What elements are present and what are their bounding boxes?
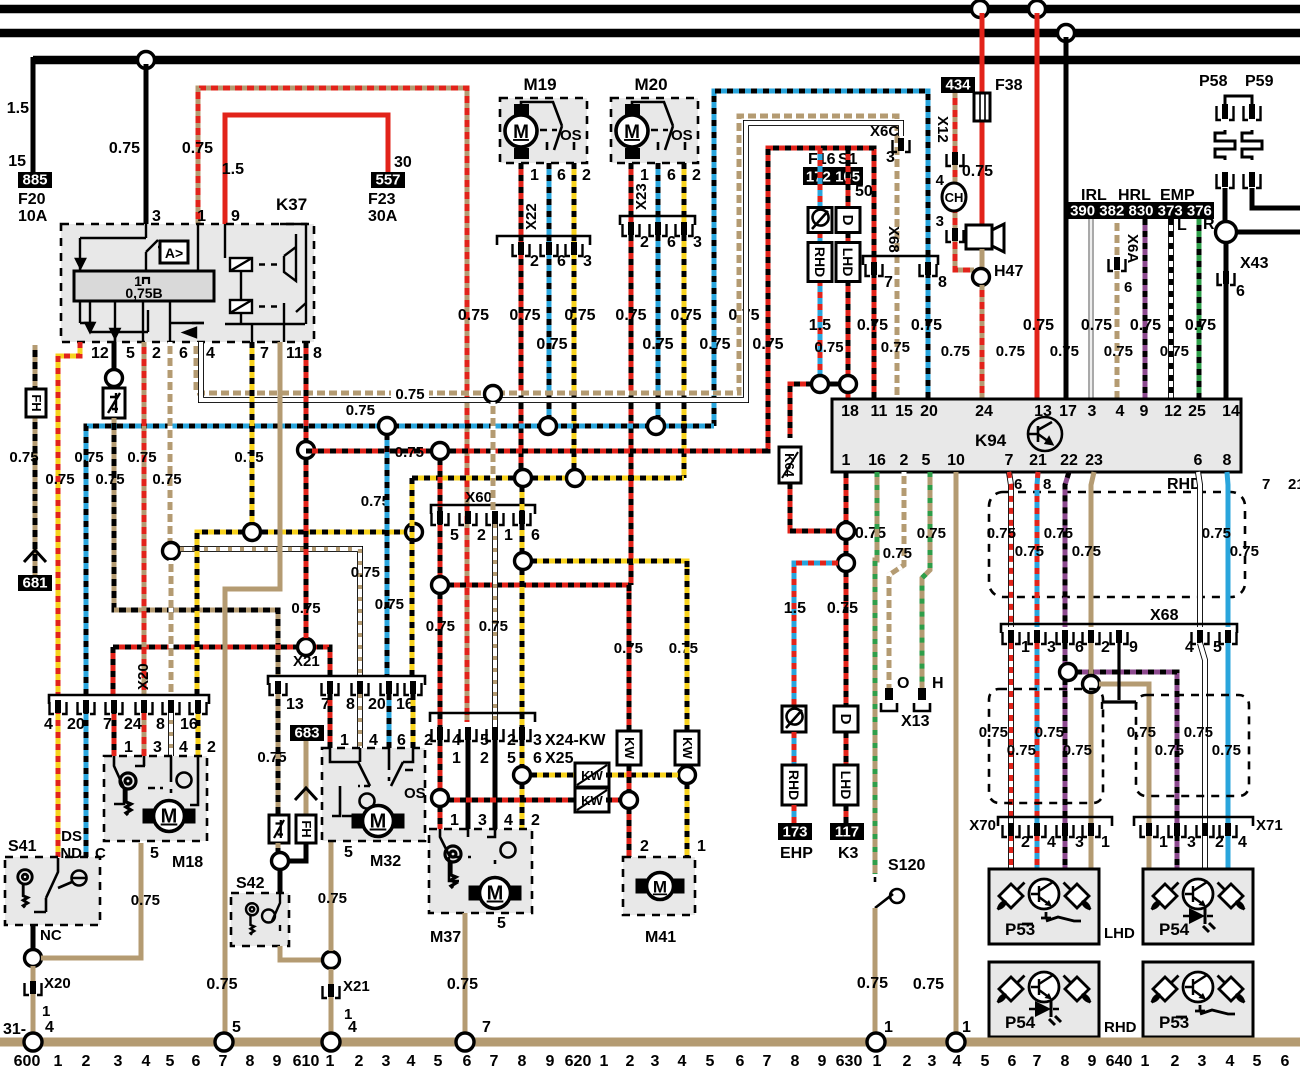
svg-text:H: H — [932, 675, 944, 692]
wire X21low to bus — [329, 969, 334, 1038]
pin X71 x1177 — [1169, 823, 1186, 837]
lamp check CH — [942, 183, 966, 211]
pin X68 long x1037 — [1029, 630, 1046, 644]
svg-text:K37: K37 — [276, 195, 307, 214]
svg-text:0.75: 0.75 — [564, 307, 595, 324]
wire horn to H47 — [980, 249, 985, 268]
svg-text:X60: X60 — [465, 489, 492, 506]
wire X20 pin4 to S41 — [56, 708, 61, 858]
svg-text:1.5: 1.5 — [784, 600, 806, 617]
wire M20 red corner down — [627, 585, 632, 798]
wire NC junction down — [31, 966, 36, 1038]
svg-text:1: 1 — [530, 167, 539, 184]
wire M32 pin5 tan — [329, 841, 334, 951]
svg-text:5: 5 — [706, 1053, 715, 1069]
pin X24 x468 — [460, 727, 477, 741]
svg-text:1: 1 — [1101, 834, 1110, 851]
wire purple/black to X70 pin3 — [1063, 643, 1068, 869]
svg-text:1: 1 — [1021, 639, 1030, 656]
junction yel 561 — [515, 553, 532, 570]
S41 internal switch — [34, 858, 87, 912]
svg-text:640: 640 — [1106, 1053, 1133, 1069]
svg-text:F38: F38 — [995, 77, 1023, 94]
svg-text:4: 4 — [936, 172, 945, 189]
motor unit M37 box — [429, 829, 532, 913]
svg-text:0.75: 0.75 — [95, 471, 124, 488]
pin X22-3 — [566, 242, 583, 256]
pin X68 long x1065 — [1057, 630, 1074, 644]
svg-text:8: 8 — [1061, 1053, 1070, 1069]
net label 557 — [371, 172, 405, 189]
svg-text:M41: M41 — [645, 929, 676, 946]
svg-text:12: 12 — [91, 345, 109, 362]
net label 173 — [778, 823, 812, 841]
svg-text:D: D — [837, 714, 854, 725]
wire X20 pin24 to M18 pin3 — [142, 708, 147, 756]
svg-text:20: 20 — [368, 696, 386, 713]
junction blue M19 — [540, 418, 557, 435]
pin X6A — [1109, 257, 1126, 271]
svg-text:0.75: 0.75 — [127, 449, 156, 466]
wire link junctions — [828, 382, 840, 387]
wire K94 pin6 white — [1198, 472, 1200, 627]
junction redblk 450 — [298, 442, 315, 459]
svg-text:0.75: 0.75 — [962, 163, 993, 180]
svg-text:0.75: 0.75 — [1063, 742, 1092, 759]
svg-text:0.75: 0.75 — [395, 444, 424, 461]
svg-text:3: 3 — [153, 739, 162, 756]
svg-text:LHD: LHD — [840, 248, 856, 277]
svg-text:0.75: 0.75 — [458, 307, 489, 324]
key symbol S41 — [18, 870, 32, 908]
svg-text:0.75: 0.75 — [987, 525, 1016, 542]
wire X24 to M37 pin2 — [520, 740, 525, 775]
svg-text:2: 2 — [152, 345, 161, 362]
svg-text:S120: S120 — [888, 857, 925, 874]
wire blue/black X68u pin8 to K94 pin20 — [926, 272, 931, 399]
junction P58/X43 — [1216, 222, 1237, 243]
svg-text:M: M — [653, 878, 667, 897]
junction bus1 F38 — [972, 1, 989, 18]
svg-text:9: 9 — [231, 208, 240, 225]
wire tan branch to X71 pin1 — [1099, 684, 1149, 869]
svg-text:30: 30 — [394, 154, 412, 171]
wire M37 pin5 tan — [463, 913, 468, 1038]
wire red/black KW row b — [606, 798, 621, 803]
wire red/black horizontal y451 — [306, 449, 768, 454]
svg-text:0.75: 0.75 — [670, 307, 701, 324]
svg-text:0.75: 0.75 — [857, 975, 888, 992]
wire red/black 629 to M41 — [627, 808, 632, 857]
pin X21 x389 — [381, 681, 398, 695]
bus bar top rail 3 — [33, 56, 1300, 65]
svg-text:14: 14 — [1222, 403, 1240, 420]
wire X20 pin8 to M18 pin4 — [168, 708, 174, 756]
svg-text:1: 1 — [842, 452, 851, 469]
D box K3 — [834, 706, 858, 732]
svg-text:1: 1 — [42, 1003, 50, 1020]
svg-text:0.75: 0.75 — [1185, 317, 1216, 334]
wire tan to X70 pin1 — [1089, 643, 1094, 869]
wire 390 gray — [1088, 219, 1094, 399]
wire blue/red EHP b — [792, 732, 797, 765]
svg-text:KW: KW — [680, 737, 695, 759]
svg-text:7: 7 — [1033, 1053, 1042, 1069]
net label 117 — [830, 823, 864, 841]
M37 internal switch — [440, 829, 516, 881]
wire yellow/black KW row b — [606, 773, 679, 778]
svg-text:8: 8 — [518, 1053, 527, 1069]
junction X21 feed — [298, 639, 315, 656]
svg-text:P53: P53 — [1159, 1013, 1189, 1032]
svg-text:1: 1 — [504, 527, 513, 544]
wire X21 pin20 to M32 pin6 — [387, 694, 392, 748]
wire white arch to X6C — [201, 123, 901, 400]
svg-text:2: 2 — [640, 234, 649, 251]
svg-text:16: 16 — [868, 452, 886, 469]
wire M19 pin2 yellow/black — [572, 163, 577, 478]
D box S1 — [836, 208, 860, 233]
light unit P54 box — [1143, 869, 1253, 944]
svg-text:R: R — [1203, 216, 1215, 233]
junction 820/384 — [812, 376, 829, 393]
pin X6C-3 — [893, 138, 910, 152]
pin X21 x330 — [322, 681, 339, 695]
svg-text:0.75: 0.75 — [1081, 317, 1112, 334]
svg-text:6: 6 — [533, 750, 542, 767]
svg-text:4: 4 — [1238, 834, 1247, 851]
svg-text:4: 4 — [44, 716, 53, 733]
svg-text:0.75: 0.75 — [1230, 543, 1259, 560]
wire white/tan 172 to X20 pin8 — [169, 560, 174, 695]
svg-text:RHD: RHD — [1104, 1019, 1137, 1036]
svg-text:O: O — [897, 675, 909, 692]
pin X20 x86 — [78, 700, 95, 714]
wire F38 feed red — [980, 13, 985, 225]
junction yelblk K37pin7 — [244, 524, 261, 541]
key symbol S42 — [246, 903, 258, 935]
bottom bus numbers — [14, 1053, 1290, 1070]
X68 pin9 stub hooks — [1102, 702, 1136, 709]
svg-text:683: 683 — [294, 725, 319, 742]
svg-text:X22: X22 — [523, 203, 540, 230]
svg-text:6: 6 — [1124, 279, 1132, 296]
wire X24 to M37 pin4 — [493, 740, 498, 829]
pin X70 x1011 — [1003, 823, 1020, 837]
S42 switch contact — [262, 893, 280, 931]
wire yellow/black 687 KW col b — [685, 765, 690, 767]
connector X24 rail — [430, 713, 535, 722]
svg-text:X23: X23 — [633, 183, 650, 210]
svg-text:15: 15 — [895, 403, 913, 420]
RHD box F16 — [808, 243, 832, 282]
svg-text:4: 4 — [179, 739, 188, 756]
svg-text:16: 16 — [180, 716, 198, 733]
wire red/black y585 — [448, 583, 629, 588]
svg-text:C: C — [95, 845, 106, 862]
pin X43 — [1218, 271, 1235, 285]
wire blue to X71 pin4 — [1226, 643, 1231, 869]
connector X68 long rail — [1001, 624, 1237, 633]
svg-text:0.75: 0.75 — [426, 618, 455, 635]
wire white/tan 170 — [168, 342, 173, 549]
svg-text:S41: S41 — [8, 838, 37, 855]
pin X20 x114 — [106, 700, 123, 714]
motor unit M18 box — [104, 756, 207, 841]
pin X20 x198 — [190, 700, 207, 714]
junction M37 pin2 — [514, 767, 531, 784]
svg-text:11: 11 — [871, 403, 888, 420]
svg-text:557: 557 — [375, 172, 400, 189]
wire X20 pin7 to M18 pin1 — [112, 708, 117, 756]
pin X68u-8 — [920, 262, 937, 276]
svg-text:1: 1 — [450, 812, 459, 829]
wire X68 pin9 stub — [1102, 643, 1136, 702]
pin X70 x1065 — [1057, 823, 1074, 837]
wire M18 pin5 tan — [139, 843, 144, 950]
svg-text:8: 8 — [1043, 476, 1051, 493]
svg-text:P54: P54 — [1159, 920, 1190, 939]
svg-text:8: 8 — [246, 1053, 255, 1069]
net label 172 105 — [803, 167, 863, 186]
junction X21 bus — [323, 952, 340, 969]
svg-text:H47: H47 — [994, 263, 1023, 280]
motor M19 — [505, 104, 537, 159]
pin X20 low — [25, 981, 42, 995]
svg-text:4: 4 — [953, 1053, 962, 1069]
junction bus2 black feed — [1058, 25, 1075, 42]
svg-text:LHD: LHD — [1104, 925, 1135, 942]
pin X20 x144 — [136, 700, 153, 714]
svg-text:4: 4 — [1185, 639, 1194, 656]
flasher box — [103, 388, 125, 418]
svg-text:21: 21 — [1029, 452, 1047, 469]
wire P58 down — [1223, 188, 1228, 223]
svg-text:5: 5 — [1213, 639, 1222, 656]
svg-text:3: 3 — [478, 812, 487, 829]
junction blue 387 — [379, 418, 396, 435]
svg-text:7: 7 — [219, 1053, 228, 1069]
svg-text:M: M — [513, 122, 529, 143]
svg-text:600: 600 — [14, 1053, 41, 1069]
motor M37 — [469, 878, 522, 909]
svg-text:1: 1 — [54, 1053, 63, 1069]
svg-text:0.75: 0.75 — [1127, 724, 1156, 741]
wire K37 pin3 — [144, 64, 149, 224]
pin P59 lower — [1244, 172, 1261, 188]
wire red/black K3 c — [844, 805, 849, 823]
svg-text:6: 6 — [1014, 476, 1022, 493]
svg-text:50: 50 — [855, 183, 873, 200]
wire black/tan 115 down — [114, 418, 278, 676]
pin X23-3 — [676, 222, 693, 236]
svg-text:0.75: 0.75 — [131, 892, 160, 909]
svg-text:30A: 30A — [368, 208, 398, 225]
svg-text:1: 1 — [197, 208, 206, 225]
junction M37 pin1 — [432, 790, 449, 807]
svg-text:390 382 830 373 376: 390 382 830 373 376 — [1070, 203, 1212, 220]
relay K37 internals — [74, 224, 306, 342]
svg-text:0.75: 0.75 — [257, 749, 286, 766]
svg-text:2: 2 — [530, 253, 539, 270]
connector X71 rail — [1134, 817, 1253, 826]
wire 846 down — [844, 539, 849, 555]
net label 681 — [18, 575, 52, 592]
svg-text:3: 3 — [533, 732, 542, 749]
svg-text:630: 630 — [836, 1053, 863, 1069]
svg-text:0,75B: 0,75B — [125, 285, 162, 301]
wire K37 pin9 to F23 — [225, 115, 388, 224]
switch S120 — [875, 877, 904, 908]
relay box K64 — [779, 447, 801, 483]
wire yellow/black X60pin6 down — [520, 524, 525, 561]
svg-text:9: 9 — [1129, 639, 1138, 656]
wire K37 pin11 tan — [225, 342, 280, 1038]
svg-text:610: 610 — [293, 1053, 320, 1069]
junction purple — [1060, 664, 1077, 681]
wire NC junction right to M18 pin5 — [41, 843, 141, 958]
wire red/black to X20 pin7 — [111, 647, 116, 695]
svg-text:0.75: 0.75 — [395, 386, 424, 403]
fuse F38 — [974, 93, 990, 121]
svg-text:OS: OS — [404, 785, 426, 802]
wire yellow/black 687 KW col — [685, 569, 690, 734]
junction yelblk X60pin6 — [515, 470, 532, 487]
junction NC — [25, 950, 42, 967]
wire red/black KW row — [448, 798, 578, 803]
svg-text:4: 4 — [678, 1053, 687, 1069]
svg-text:1: 1 — [452, 750, 461, 767]
svg-text:NC: NC — [40, 927, 62, 944]
svg-text:0.75: 0.75 — [346, 402, 375, 419]
wire M20 pin2 yellow/black — [682, 163, 687, 478]
svg-text:2: 2 — [477, 527, 486, 544]
svg-text:117: 117 — [835, 824, 859, 841]
svg-text:3: 3 — [1187, 834, 1196, 851]
svg-text:9: 9 — [818, 1053, 827, 1069]
svg-text:0.75: 0.75 — [669, 640, 698, 657]
svg-text:0.75: 0.75 — [1160, 343, 1189, 360]
junction red 440 — [432, 443, 449, 460]
wire 885 feed — [31, 57, 36, 174]
svg-text:1: 1 — [600, 1053, 609, 1069]
motor M20 — [616, 104, 648, 159]
svg-text:23: 23 — [1085, 452, 1103, 469]
wire white/tan y549 to X21 pin8 — [180, 549, 360, 676]
LHD box S1 — [836, 243, 860, 282]
pin X21 low — [323, 984, 340, 998]
svg-text:KW: KW — [622, 737, 637, 759]
svg-text:0.75: 0.75 — [615, 307, 646, 324]
wire X43 black — [1224, 242, 1229, 399]
svg-text:M37: M37 — [430, 929, 461, 946]
svg-text:5: 5 — [232, 1019, 241, 1036]
wire red/black X68u pin7 to K94 pin11 — [872, 272, 877, 399]
svg-text:6: 6 — [667, 167, 676, 184]
svg-text:P59: P59 — [1245, 73, 1274, 90]
svg-text:LHD: LHD — [838, 771, 854, 800]
svg-text:8: 8 — [791, 1053, 800, 1069]
svg-text:M: M — [624, 122, 640, 143]
svg-text:8: 8 — [938, 274, 947, 291]
svg-text:A>: A> — [165, 245, 183, 261]
junction red KW row — [621, 792, 638, 809]
svg-text:620: 620 — [565, 1053, 592, 1069]
bus junction x876 — [867, 1033, 885, 1051]
svg-text:EMP: EMP — [1160, 187, 1195, 204]
svg-text:0.75: 0.75 — [109, 140, 140, 157]
svg-text:0.75: 0.75 — [291, 600, 320, 617]
bus junction x465 — [456, 1033, 474, 1051]
wire K94 pin2 tan/white to X13 O — [889, 472, 904, 688]
wire K94 pin1 red/black — [844, 472, 849, 523]
svg-text:13: 13 — [286, 696, 304, 713]
connector X68 upper rail — [863, 256, 938, 265]
connector X60 rail — [431, 505, 535, 514]
svg-text:18: 18 — [841, 403, 859, 420]
M18 internal switch — [114, 756, 198, 805]
key symbol M18 — [120, 773, 136, 815]
svg-text:X71: X71 — [1256, 817, 1283, 834]
wire K94 pin21 blue/red — [1037, 472, 1038, 627]
LHD box K3 — [834, 765, 858, 805]
wire white/red to X70 pin2 — [1008, 643, 1014, 869]
svg-text:5: 5 — [344, 844, 353, 861]
connector X21 rail — [268, 676, 425, 685]
speed sensor P58/P59 top link — [1225, 96, 1252, 104]
junction blue M20 — [648, 418, 665, 435]
pin X68u-7 — [866, 262, 883, 276]
svg-text:0.75: 0.75 — [814, 339, 843, 356]
connector X22 rail — [497, 236, 590, 245]
svg-text:S42: S42 — [236, 875, 265, 892]
svg-text:2: 2 — [531, 812, 540, 829]
wire K94 pin22 purple/black — [1065, 472, 1069, 627]
pin X60-6 — [514, 511, 531, 525]
svg-text:6: 6 — [179, 345, 188, 362]
junction red 585 — [432, 577, 449, 594]
wire tan/white arch — [196, 116, 897, 399]
switch S41 box — [5, 857, 100, 925]
svg-text:L: L — [1177, 217, 1187, 234]
wire yellow/black 412 down to X21 pin16 — [410, 478, 415, 676]
pin X60-2 — [460, 511, 477, 525]
svg-text:0.75: 0.75 — [883, 545, 912, 562]
svg-text:4: 4 — [206, 345, 215, 362]
motor unit M32 box — [322, 748, 425, 841]
connector X20 rail — [49, 695, 209, 704]
svg-text:1: 1 — [962, 1019, 971, 1036]
connector X13 H pin — [914, 688, 930, 711]
wire blue/black 387 to X21 pin20 — [385, 434, 390, 676]
wire K64 red/black left loop — [790, 384, 812, 438]
svg-text:X12: X12 — [934, 116, 951, 143]
wire X20 pin20 to S41 — [84, 708, 89, 858]
svg-text:2: 2 — [1215, 834, 1224, 851]
svg-text:6: 6 — [1008, 1053, 1017, 1069]
wire M19 pin6 blue/black — [547, 163, 552, 426]
bus junction x33 — [24, 1033, 42, 1051]
chevron on 681 wire — [24, 550, 46, 562]
pin X24 x522 — [514, 727, 531, 741]
svg-text:EHP: EHP — [780, 845, 813, 862]
svg-text:7: 7 — [482, 1019, 491, 1036]
svg-text:6: 6 — [1236, 283, 1245, 300]
wire yellow/black KW row — [531, 773, 578, 778]
svg-text:3: 3 — [886, 149, 895, 166]
wire junction to right edge — [1236, 230, 1300, 235]
svg-text:3: 3 — [1198, 1053, 1207, 1069]
